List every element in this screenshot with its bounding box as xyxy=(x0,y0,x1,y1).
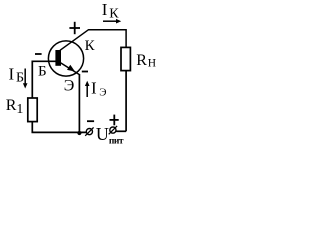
svg-text:I: I xyxy=(91,79,97,98)
svg-text:I: I xyxy=(9,64,15,83)
svg-text:К: К xyxy=(85,38,96,54)
svg-text:R: R xyxy=(6,97,17,114)
svg-text:Э: Э xyxy=(64,78,75,95)
svg-text:Б: Б xyxy=(38,64,47,80)
svg-text:I: I xyxy=(102,0,108,19)
svg-text:Н: Н xyxy=(148,58,156,70)
svg-text:Б: Б xyxy=(16,70,24,85)
svg-text:пит: пит xyxy=(109,137,124,147)
svg-text:К: К xyxy=(109,7,119,22)
svg-text:R: R xyxy=(136,52,147,69)
svg-text:1: 1 xyxy=(16,102,23,117)
svg-text:U: U xyxy=(96,124,109,144)
svg-text:Э: Э xyxy=(99,86,106,98)
